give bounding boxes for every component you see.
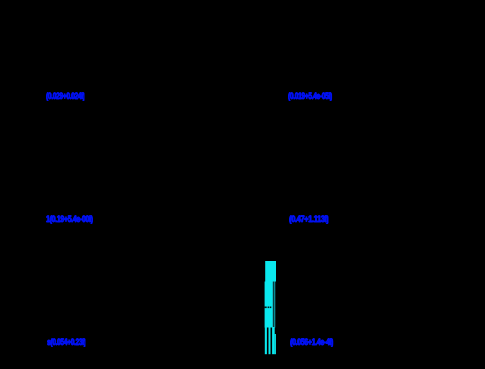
node label eig6 (bottom-right complex value) [290, 337, 333, 348]
wire: medium cyan inner stripe [272, 282, 273, 328]
node label eig3 (mid-left complex value) [46, 214, 93, 225]
node label eig5 (bottom-left complex value) [47, 337, 86, 348]
node label eig2 (top-right complex value) [288, 91, 332, 102]
wire: right thin teal stripe of middle segment [274, 282, 275, 328]
wire: dark separator line inside band [272, 282, 275, 328]
wire: bottom strip 3 widened lower part [275, 334, 276, 354]
wire: top wide segment of cyan band [265, 261, 276, 282]
node label eig1 (top-left complex value) [46, 91, 85, 102]
node label eig4 (mid-right complex value) [289, 214, 328, 225]
node: dashed cursor line across band [265, 307, 272, 309]
wire: bottom strip 1 [265, 327, 267, 354]
wire: bottom strip 3 [272, 327, 275, 354]
wire: bottom strip 2 [269, 327, 271, 354]
wire: middle segment of cyan band [265, 282, 272, 328]
